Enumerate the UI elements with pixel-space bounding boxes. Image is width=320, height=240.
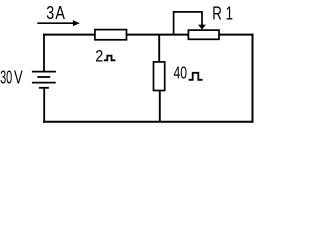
wire left upper (top corner down to battery) [43, 34, 45, 72]
wire top from left corner to right corner [43, 34, 253, 36]
battery B1 plate short lower [39, 87, 49, 89]
svg-text:R 1: R 1 [212, 3, 233, 23]
battery B1 plate short upper [37, 76, 50, 78]
wire left lower (battery to bottom corner) [43, 88, 45, 123]
wire bottom [43, 121, 253, 123]
resistor 40 ohm box [154, 62, 165, 91]
svg-text:30: 30 [0, 66, 12, 87]
svg-text:V: V [14, 66, 23, 87]
wire middle branch upper [158, 35, 160, 62]
resistor 2 ohm box [95, 30, 127, 40]
label 40 ohm omega [189, 73, 203, 80]
battery B1 plate long bottom [32, 82, 56, 84]
current arrow 3A shaft [37, 22, 75, 24]
rheostat wiper arrowhead [198, 25, 206, 30]
svg-text:40: 40 [174, 63, 188, 83]
battery B1 plate long top [32, 71, 56, 73]
wire middle branch lower [159, 90, 161, 122]
rheostat R1 box [188, 30, 219, 39]
label 2 ohm omega [104, 56, 116, 61]
current arrow 3A head [73, 20, 80, 26]
svg-text:2: 2 [95, 46, 103, 65]
rheostat wiper loop wire [174, 12, 202, 36]
wire right [252, 34, 254, 123]
svg-text:3A: 3A [46, 2, 66, 23]
